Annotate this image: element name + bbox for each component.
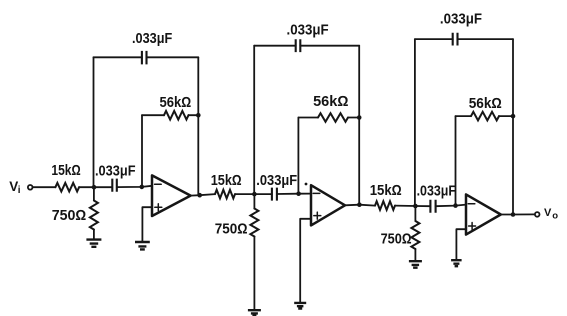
svg-text:V: V <box>544 207 552 219</box>
wire: R1 to series cap C2 <box>79 186 112 188</box>
resistor R6 56k ohm feedback (stage 2) <box>297 118 299 194</box>
U2 plus sign <box>314 212 321 219</box>
ground: below R2 (stage 1) <box>86 240 101 247</box>
capacitor C5 .033uF feedback (stage 3 top loop) <box>414 39 416 206</box>
node B: junction C2/R3 at U1 minus input <box>140 185 145 190</box>
wire: C2 to op-amp U1 inverting input <box>117 186 152 187</box>
U3 minus sign <box>468 203 475 205</box>
node: junction R4/R5/C3 (stage 2) <box>252 192 257 197</box>
svg-text:i: i <box>18 185 21 196</box>
svg-text:.033μF: .033μF <box>440 11 482 27</box>
wire: right side of feedback loop (stage 3) <box>512 39 514 214</box>
node: U2 output junction <box>357 202 362 207</box>
capacitor C1 .033uF feedback (stage 1 top loop) <box>93 57 95 187</box>
stray period mark after C4 label <box>305 183 308 186</box>
ground: U3 plus input <box>451 260 462 266</box>
resistor R9 56k ohm feedback (stage 3) <box>455 116 457 206</box>
wire: right side of feedback loop (stage 1) <box>197 57 199 195</box>
resistor R8 750 ohm (stage 3, to ground) <box>414 206 416 221</box>
svg-text:15kΩ: 15kΩ <box>51 163 80 179</box>
ground: U2 plus input <box>294 303 306 309</box>
resistor R2 750 ohm (stage 1, to ground) <box>93 187 95 200</box>
U2 minus sign <box>313 192 320 194</box>
svg-text:750Ω: 750Ω <box>52 208 87 224</box>
svg-text:.033μF: .033μF <box>417 184 457 200</box>
node: junction C4/R6 at U2 minus input <box>296 191 301 196</box>
svg-text:.033μF: .033μF <box>256 173 297 189</box>
ground: below R8 (stage 3) <box>409 261 422 268</box>
wire: U1 output to stage 2 <box>191 194 215 196</box>
svg-text:.033μF: .033μF <box>287 22 329 38</box>
wire: U3 non-inverting input to ground <box>456 229 466 259</box>
svg-text:750Ω: 750Ω <box>381 231 412 247</box>
node: R9 right end on feedback rail <box>511 114 516 119</box>
capacitor C4 .033uF series (stage 2) <box>272 188 277 201</box>
resistor R3 56k ohm feedback (stage 1) <box>141 115 143 187</box>
wire: R4 to series cap C4 <box>235 193 272 195</box>
resistor R4 15k ohm (stage 2 input) <box>215 190 235 199</box>
node A: junction R1/R2/C1 (stage 1) <box>92 185 97 190</box>
output terminal Vo <box>535 212 540 217</box>
U3 plus sign <box>469 223 476 230</box>
ground: below R5 (stage 2) <box>248 310 261 315</box>
op-amp U1 (stage 1) <box>152 175 191 216</box>
svg-text:56kΩ: 56kΩ <box>469 96 502 112</box>
wire: U1 non-inverting input to ground <box>142 207 152 241</box>
capacitor C2 .033uF series (stage 1) <box>112 179 117 192</box>
U1 minus sign <box>155 183 162 185</box>
node: junction C6/R9 at U3 minus input <box>453 203 458 208</box>
wire: input lead from Vi terminal <box>33 186 56 188</box>
resistor R7 15k ohm (stage 3 input) <box>375 201 395 210</box>
wire: R7 to series cap C6 <box>395 205 430 208</box>
svg-text:56kΩ: 56kΩ <box>160 95 192 111</box>
resistor R5 750 ohm (stage 2, to ground) <box>253 194 255 208</box>
node: junction R7/R8/C5 (stage 3) <box>413 204 418 209</box>
svg-text:56kΩ: 56kΩ <box>313 94 348 110</box>
wire: right side of feedback loop (stage 2) <box>358 46 360 205</box>
op-amp U3 (stage 3) <box>466 194 501 234</box>
node: U1 output junction <box>197 193 202 198</box>
U1 plus sign <box>155 204 162 211</box>
wire: U3 output to Vo terminal <box>501 213 535 215</box>
svg-text:15kΩ: 15kΩ <box>370 183 402 199</box>
input terminal Vi <box>28 185 33 190</box>
op-amp U2 (stage 2) <box>311 185 345 225</box>
node: R3 right end on feedback rail <box>196 113 201 118</box>
wire: C6 to op-amp U3 inverting input <box>436 205 466 207</box>
ground: U1 plus input <box>135 242 150 249</box>
node: U3 output junction <box>511 212 516 217</box>
wire: U2 output to stage 3 <box>345 204 375 207</box>
svg-text:.033μF: .033μF <box>132 31 172 47</box>
svg-text:o: o <box>552 211 558 222</box>
capacitor C3 .033uF feedback (stage 2 top loop) <box>253 46 255 194</box>
wire: C4 to op-amp U2 inverting input <box>277 193 311 195</box>
resistor R1 15k ohm (stage 1 input) <box>55 183 79 192</box>
svg-text:750Ω: 750Ω <box>215 222 248 238</box>
node: R6 right end on feedback rail <box>357 115 362 120</box>
wire: U2 non-inverting input to ground <box>300 219 311 302</box>
svg-text:.033μF: .033μF <box>95 164 136 180</box>
capacitor C6 .033uF series (stage 3) <box>430 200 435 213</box>
svg-text:15kΩ: 15kΩ <box>211 173 242 189</box>
